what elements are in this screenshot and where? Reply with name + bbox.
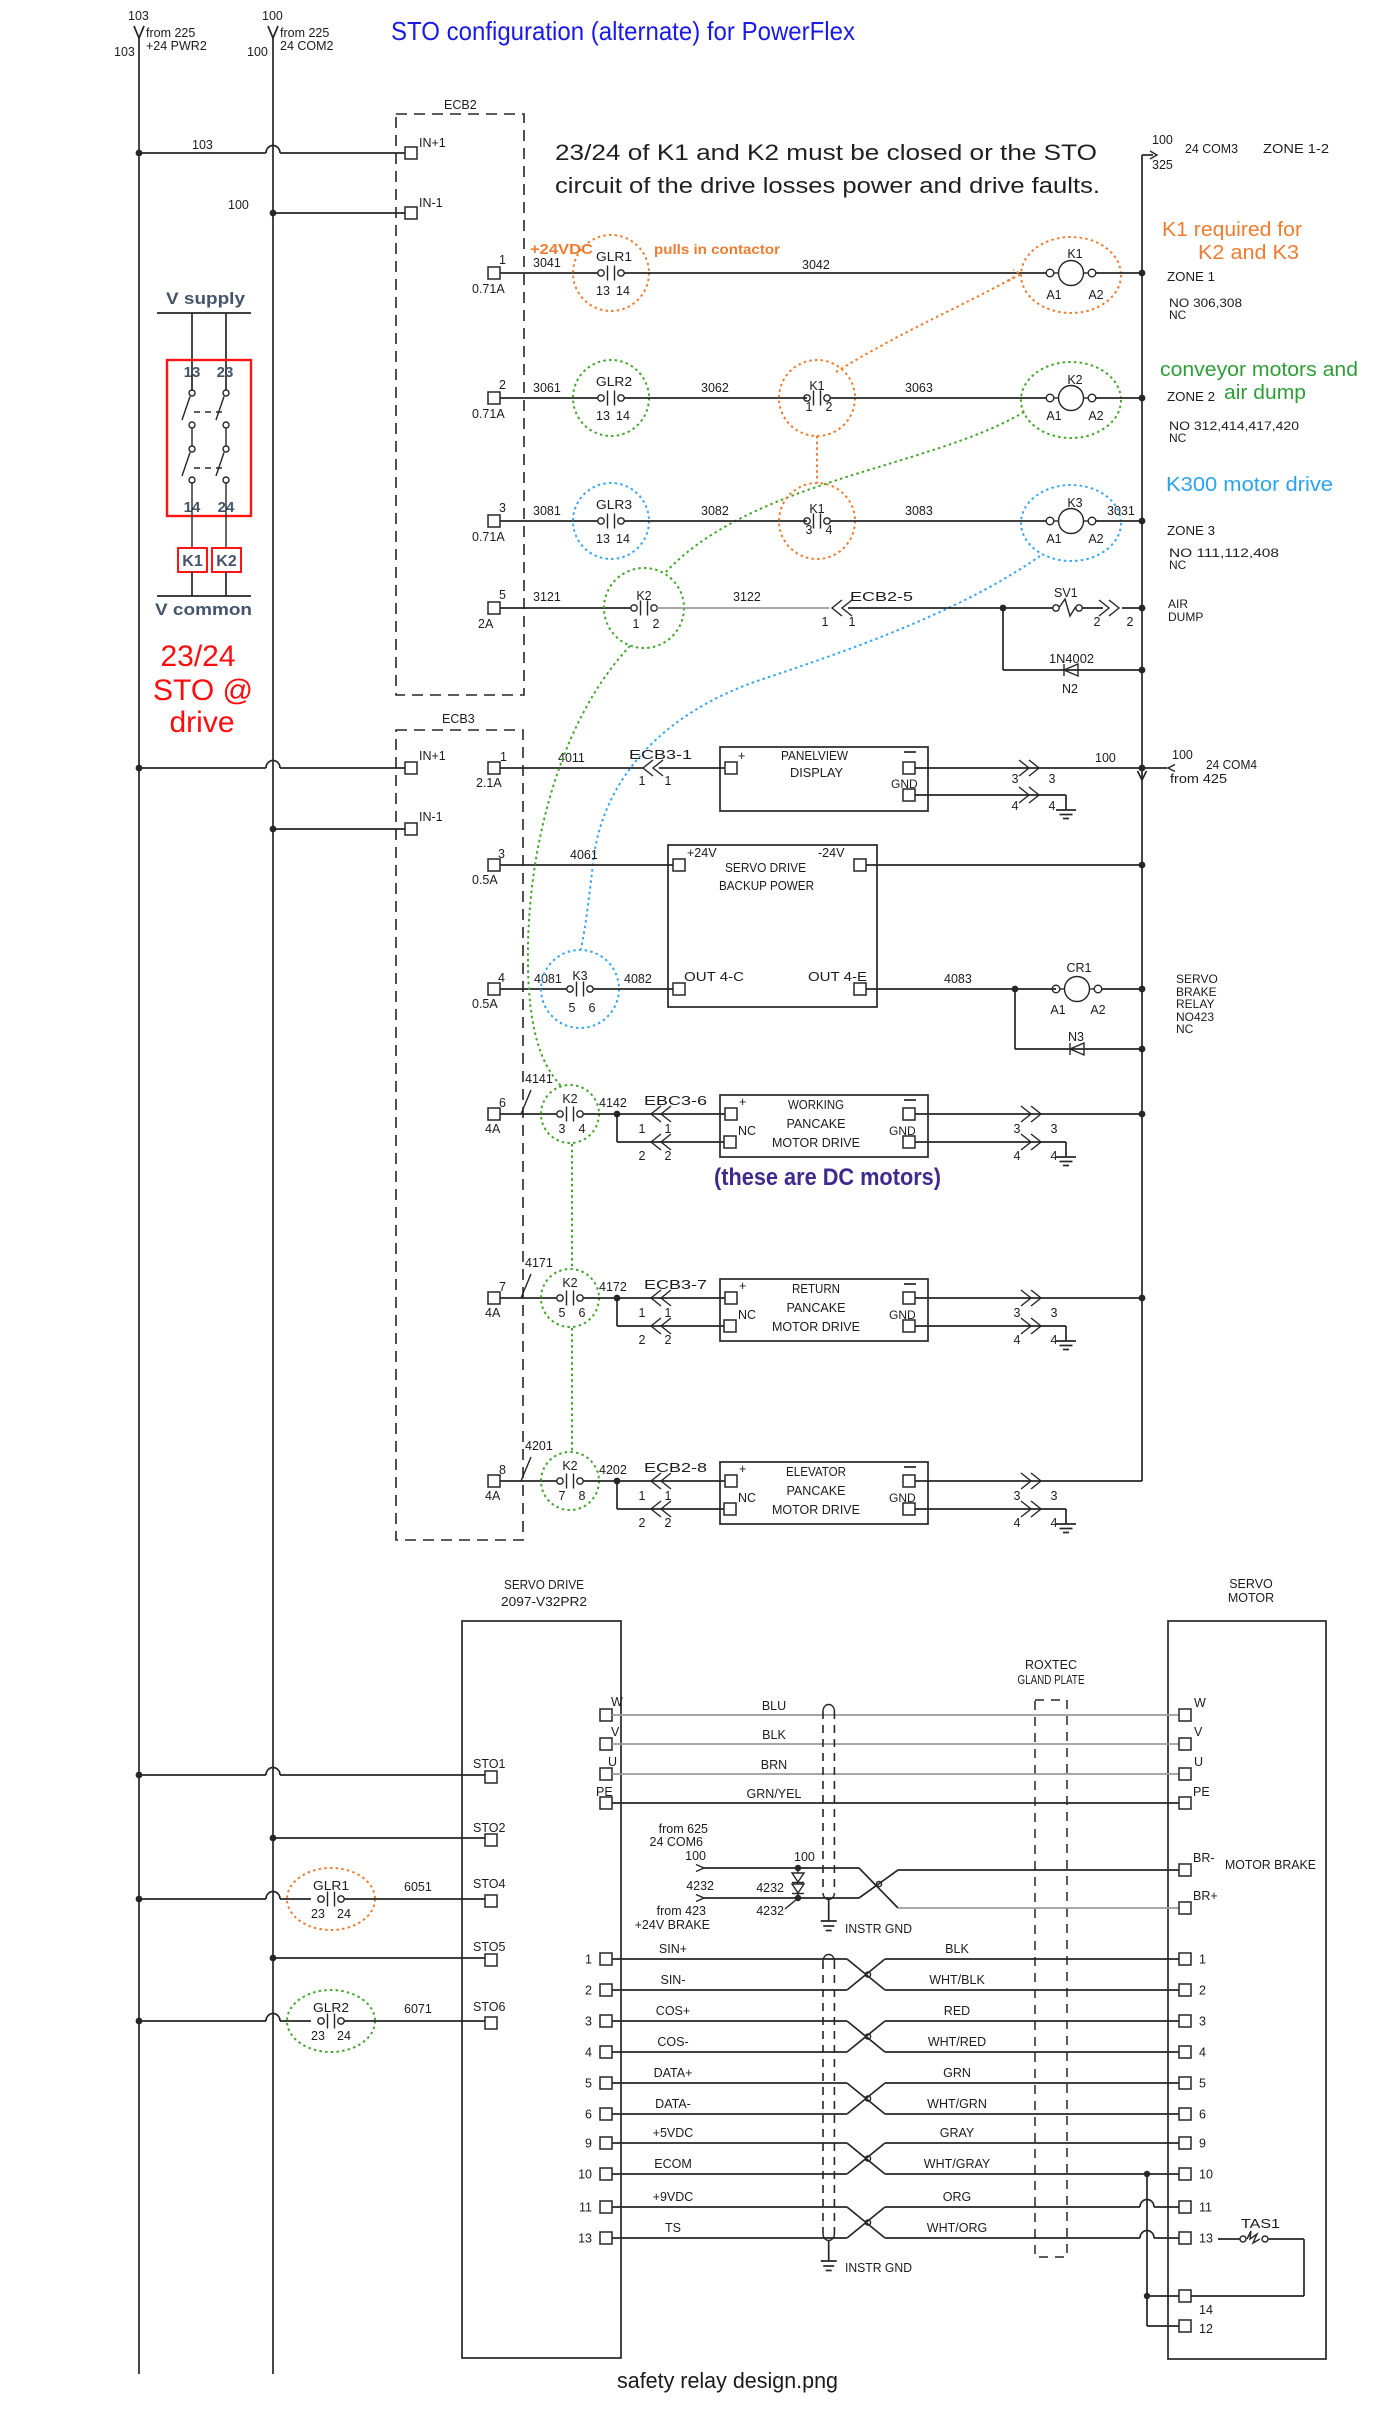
- relay contact GLR1 13-14: [573, 235, 649, 311]
- V supply bus: [157, 289, 251, 390]
- svg-text:-24V: -24V: [818, 846, 845, 860]
- wire 3122 (gray): [657, 590, 829, 608]
- svg-text:3082: 3082: [701, 504, 729, 518]
- svg-text:GLR2: GLR2: [313, 2001, 349, 2015]
- SERVO MOTOR box: [1168, 1577, 1326, 2359]
- junction node: [1000, 605, 1007, 612]
- rung 7: ECB3 output 4 terminal: [472, 971, 505, 1011]
- svg-text:4232: 4232: [686, 1879, 714, 1893]
- svg-text:SERVO DRIVE: SERVO DRIVE: [504, 1578, 584, 1592]
- svg-text:9: 9: [1199, 2137, 1206, 2151]
- svg-text:4: 4: [1014, 1516, 1021, 1530]
- svg-text:BLK: BLK: [762, 1728, 786, 1742]
- svg-text:BLU: BLU: [762, 1699, 786, 1713]
- brake wire 4232: [696, 1895, 859, 1902]
- cable marker EBC3-6: [639, 1094, 708, 1136]
- mechanical link dashes: [194, 411, 224, 413]
- svg-text:2: 2: [665, 1149, 672, 1163]
- rung 9: ECB3 output 7 terminal: [485, 1280, 506, 1320]
- svg-text:1: 1: [806, 400, 813, 414]
- svg-text:GRN: GRN: [943, 2066, 971, 2080]
- svg-text:2: 2: [585, 1984, 592, 1998]
- wire 4172 to junction: [583, 1280, 725, 1301]
- svg-text:from 425: from 425: [1170, 772, 1227, 786]
- zone 3 annotations: [1166, 474, 1333, 572]
- svg-text:NC: NC: [1176, 1022, 1194, 1036]
- svg-text:DATA+: DATA+: [654, 2066, 693, 2080]
- encoder pin 10 (ECOM): [578, 2157, 1213, 2182]
- svg-text:100: 100: [685, 1849, 706, 1863]
- svg-text:3: 3: [585, 2015, 592, 2029]
- svg-text:PANCAKE: PANCAKE: [787, 1484, 846, 1498]
- wire to BR-: [898, 1851, 1215, 1876]
- svg-text:IN+1: IN+1: [419, 749, 446, 763]
- wire 103 to IN+1: [136, 138, 405, 156]
- svg-text:6051: 6051: [404, 1880, 432, 1894]
- svg-text:STO6: STO6: [473, 2000, 505, 2014]
- svg-text:PE: PE: [1193, 1785, 1210, 1799]
- thermostat TAS1: [1191, 2217, 1304, 2296]
- NC branch wire: [617, 1481, 724, 1530]
- return GND wire to ground: [915, 1318, 1076, 1350]
- contact chain 13-14: [182, 390, 195, 548]
- AIR DUMP label: [1168, 597, 1203, 624]
- svg-text:SERVO: SERVO: [1176, 972, 1218, 986]
- svg-text:STO1: STO1: [473, 1757, 505, 1771]
- svg-text:circuit of the drive losses po: circuit of the drive losses power and dr…: [555, 173, 1100, 198]
- svg-text:from 625: from 625: [659, 1822, 708, 1836]
- svg-text:1N4002: 1N4002: [1049, 652, 1094, 666]
- svg-text:K1: K1: [1067, 247, 1082, 261]
- svg-text:NC: NC: [1169, 558, 1187, 572]
- svg-text:24 COM2: 24 COM2: [280, 39, 334, 53]
- svg-text:3: 3: [499, 501, 506, 515]
- contactor coil K3: [1021, 485, 1121, 561]
- svg-text:3: 3: [559, 1122, 566, 1136]
- svg-text:conveyor motors and: conveyor motors and: [1160, 359, 1358, 381]
- svg-text:3083: 3083: [905, 504, 933, 518]
- servo brake relay labels: [1176, 972, 1218, 1036]
- green link K2 3-4 to K2 5-6: [571, 1144, 573, 1268]
- svg-text:0.71A: 0.71A: [472, 282, 505, 296]
- thermal switch common link: [1144, 2174, 1179, 2326]
- svg-text:2: 2: [639, 1149, 646, 1163]
- svg-text:325: 325: [1152, 158, 1173, 172]
- svg-text:24: 24: [337, 1907, 351, 1921]
- green link K2 1-2 to K2 3-4: [528, 646, 630, 1086]
- wire rail to ECB3 IN+1: [136, 761, 405, 772]
- WORKING PANCAKE MOTOR DRIVE box: [720, 1095, 928, 1157]
- svg-text:2: 2: [653, 617, 660, 631]
- svg-text:STO2: STO2: [473, 1821, 505, 1835]
- svg-text:6: 6: [499, 1096, 506, 1110]
- svg-text:24: 24: [337, 2029, 351, 2043]
- ECB2 terminal IN-1: [405, 196, 443, 219]
- twisted pair crossover: [847, 1959, 885, 1990]
- svg-text:STO configuration (alternate): STO configuration (alternate) for PowerF…: [391, 16, 855, 46]
- svg-text:A2: A2: [1088, 532, 1103, 546]
- svg-text:NC: NC: [1169, 308, 1187, 322]
- svg-text:4: 4: [1014, 1149, 1021, 1163]
- brake source labels: [635, 1822, 714, 1932]
- motor U terminal: [1179, 1755, 1203, 1780]
- zone 2 annotations: [1160, 359, 1358, 445]
- wire 4142 to junction: [583, 1096, 725, 1117]
- svg-text:ORG: ORG: [943, 2190, 971, 2204]
- wire 3083: [830, 504, 1046, 521]
- svg-text:4: 4: [1051, 1149, 1058, 1163]
- svg-text:14: 14: [616, 532, 630, 546]
- svg-text:INSTR GND: INSTR GND: [845, 2261, 912, 2275]
- orange link K1 1-2 to K1 3-4: [816, 436, 818, 483]
- svg-text:3031: 3031: [1107, 504, 1135, 518]
- svg-text:3: 3: [1014, 1489, 1021, 1503]
- svg-text:BR+: BR+: [1193, 1889, 1218, 1903]
- svg-text:3: 3: [1199, 2015, 1206, 2029]
- svg-text:GLAND PLATE: GLAND PLATE: [1018, 1673, 1085, 1687]
- svg-text:8: 8: [499, 1463, 506, 1477]
- svg-text:NC: NC: [1169, 431, 1187, 445]
- svg-text:air dump: air dump: [1224, 382, 1306, 404]
- svg-text:100: 100: [1095, 751, 1116, 765]
- svg-text:3061: 3061: [533, 381, 561, 395]
- NC branch wire: [617, 1298, 724, 1347]
- wire BLK: [612, 1728, 1179, 1744]
- svg-text:103: 103: [192, 138, 213, 152]
- svg-text:13: 13: [596, 532, 610, 546]
- off page stub 24 COM4: [1142, 748, 1257, 786]
- svg-text:COS+: COS+: [656, 2004, 690, 2018]
- svg-text:3063: 3063: [905, 381, 933, 395]
- svg-text:WHT/GRN: WHT/GRN: [927, 2097, 987, 2111]
- svg-text:K1 required for: K1 required for: [1162, 219, 1302, 241]
- svg-text:safety relay design.png: safety relay design.png: [617, 2368, 838, 2393]
- svg-text:10: 10: [1199, 2168, 1213, 2182]
- svg-text:4202: 4202: [599, 1463, 627, 1477]
- svg-text:from 225: from 225: [280, 26, 329, 40]
- svg-text:ECB2-8: ECB2-8: [644, 1461, 707, 1475]
- svg-text:5: 5: [499, 588, 506, 602]
- svg-text:14: 14: [616, 409, 630, 423]
- wire 3062: [624, 381, 807, 398]
- svg-text:TS: TS: [665, 2221, 681, 2235]
- rung 6: ECB3 output 3 terminal: [472, 847, 505, 887]
- aux contact K2 1-2: [604, 568, 684, 648]
- svg-text:PE: PE: [596, 1785, 613, 1799]
- drive phase W terminal: [600, 1695, 623, 1721]
- 24V common right rail: [1138, 133, 1330, 1481]
- svg-text:K3: K3: [1067, 496, 1082, 510]
- cable marker ECB3-1: [629, 748, 725, 788]
- svg-text:4081: 4081: [534, 972, 562, 986]
- cable marker ECB3-7: [639, 1278, 708, 1320]
- svg-text:NC: NC: [738, 1124, 756, 1138]
- svg-text:K300 motor drive: K300 motor drive: [1166, 474, 1333, 496]
- svg-text:K2: K2: [216, 553, 237, 570]
- motor pin 14: [1179, 2290, 1213, 2317]
- wire 4202 to junction: [583, 1463, 725, 1484]
- STO2 wire: [270, 1821, 506, 1846]
- svg-text:SERVO DRIVE: SERVO DRIVE: [725, 861, 806, 875]
- flyback diode N3 branch: [1015, 989, 1145, 1055]
- svg-text:5: 5: [1199, 2077, 1206, 2091]
- svg-text:4232: 4232: [756, 1904, 784, 1918]
- svg-text:2: 2: [639, 1333, 646, 1347]
- svg-text:6: 6: [585, 2108, 592, 2122]
- svg-text:4201: 4201: [525, 1439, 553, 1453]
- svg-text:GRN/YEL: GRN/YEL: [747, 1787, 802, 1801]
- svg-text:24 COM6: 24 COM6: [650, 1835, 704, 1849]
- svg-text:24 COM3: 24 COM3: [1185, 142, 1238, 156]
- svg-text:RETURN: RETURN: [792, 1282, 840, 1296]
- brake pair twist: [859, 1868, 898, 1908]
- svg-text:ECOM: ECOM: [654, 2157, 692, 2171]
- svg-text:3: 3: [1049, 772, 1056, 786]
- rung 10: ECB3 output 8 terminal: [485, 1463, 506, 1503]
- svg-text:PANCAKE: PANCAKE: [787, 1301, 846, 1315]
- ELEVATOR PANCAKE MOTOR DRIVE box: [720, 1462, 928, 1524]
- svg-text:1: 1: [585, 1953, 592, 1967]
- svg-text:1: 1: [822, 615, 829, 629]
- svg-text:4: 4: [1051, 1333, 1058, 1347]
- svg-text:IN-1: IN-1: [419, 196, 443, 210]
- PANELVIEW DISPLAY box: [720, 747, 928, 811]
- svg-text:GLR1: GLR1: [596, 250, 632, 264]
- rung 5: ECB3 output 1 terminal: [476, 750, 507, 790]
- motor pin 12: [1179, 2320, 1213, 2336]
- svg-text:2: 2: [826, 400, 833, 414]
- svg-text:3: 3: [1014, 1122, 1021, 1136]
- wire -24V to rail: [866, 862, 1145, 869]
- svg-text:+5VDC: +5VDC: [653, 2126, 694, 2140]
- ECB3 module box: [396, 712, 523, 1540]
- svg-text:4082: 4082: [624, 972, 652, 986]
- working GND wire to ground: [915, 1134, 1076, 1166]
- svg-text:PANELVIEW: PANELVIEW: [781, 749, 848, 763]
- svg-text:2: 2: [1199, 1984, 1206, 1998]
- power rail 100 (second bus): [247, 9, 334, 2374]
- ECB2 module box: [396, 98, 524, 695]
- svg-text:MOTOR: MOTOR: [1228, 1591, 1274, 1605]
- svg-text:ELEVATOR: ELEVATOR: [786, 1465, 846, 1479]
- relay K2 label box: [212, 548, 241, 572]
- encoder pin 5 (DATA+): [585, 2066, 1206, 2091]
- svg-text:4142: 4142: [599, 1096, 627, 1110]
- twisted pair crossover: [847, 2207, 885, 2238]
- svg-text:4: 4: [1051, 1516, 1058, 1530]
- green link K2 5-6 to K2 7-8: [571, 1328, 573, 1451]
- svg-text:COS-: COS-: [657, 2035, 688, 2049]
- relay contact GLR2 13-14: [573, 360, 649, 436]
- svg-text:12: 12: [1199, 2322, 1213, 2336]
- rung 2: ECB2 output 2 terminal: [472, 378, 506, 421]
- svg-text:BRN: BRN: [761, 1758, 787, 1772]
- svg-text:13: 13: [596, 284, 610, 298]
- svg-text:NC: NC: [738, 1491, 756, 1505]
- svg-text:AIR: AIR: [1168, 597, 1188, 611]
- svg-text:SIN+: SIN+: [659, 1942, 687, 1956]
- wire 4171 with leader: [500, 1256, 557, 1298]
- svg-text:1: 1: [639, 1489, 646, 1503]
- svg-text:3081: 3081: [533, 504, 561, 518]
- svg-text:V: V: [1194, 1725, 1203, 1739]
- svg-text:OUT 4-E: OUT 4-E: [808, 970, 867, 984]
- wire 3041: [500, 256, 598, 273]
- svg-text:BLK: BLK: [945, 1942, 969, 1956]
- twisted pair crossover: [847, 2143, 885, 2174]
- svg-text:A2: A2: [1090, 1003, 1105, 1017]
- svg-text:+: +: [739, 1095, 746, 1109]
- svg-text:A1: A1: [1046, 409, 1061, 423]
- svg-text:ZONE 1: ZONE 1: [1167, 270, 1215, 284]
- svg-text:OUT 4-C: OUT 4-C: [684, 970, 744, 984]
- svg-text:3: 3: [1051, 1306, 1058, 1320]
- svg-text:11: 11: [1199, 2201, 1212, 2215]
- svg-text:ZONE 3: ZONE 3: [1167, 524, 1215, 538]
- svg-text:2: 2: [499, 378, 506, 392]
- svg-text:4083: 4083: [944, 972, 972, 986]
- svg-text:14: 14: [616, 284, 630, 298]
- NC branch wire: [617, 1114, 724, 1163]
- svg-text:1: 1: [849, 615, 856, 629]
- svg-text:3122: 3122: [733, 590, 761, 604]
- svg-text:3062: 3062: [701, 381, 729, 395]
- relay contact GLR1 23-24: [136, 1868, 506, 1930]
- svg-text:STO @: STO @: [153, 674, 253, 707]
- wire 3042: [624, 258, 1046, 273]
- svg-text:WHT/ORG: WHT/ORG: [927, 2221, 987, 2235]
- aux contact K2 5-6: [541, 1269, 599, 1327]
- svg-text:23: 23: [311, 1907, 325, 1921]
- svg-text:11: 11: [579, 2201, 592, 2215]
- wire 4201 with leader: [500, 1439, 557, 1481]
- encoder pin 4 (COS-): [585, 2035, 1206, 2060]
- encoder pin 11 (+9VDC): [579, 2190, 1212, 2215]
- aux contact K3 5-6: [541, 950, 619, 1028]
- wire 3031 to rail: [1096, 504, 1145, 524]
- svg-text:3: 3: [1012, 772, 1019, 786]
- svg-text:NO 312,414,417,420: NO 312,414,417,420: [1169, 419, 1299, 433]
- return output wire to rail: [915, 1290, 1145, 1320]
- svg-text:23/24: 23/24: [160, 640, 235, 673]
- svg-text:K2: K2: [562, 1276, 577, 1290]
- svg-text:4: 4: [585, 2046, 592, 2060]
- power cable shield: [821, 1705, 912, 1936]
- svg-text:K2: K2: [1067, 373, 1082, 387]
- svg-text:NC: NC: [738, 1308, 756, 1322]
- brake wire 100: [696, 1850, 859, 1872]
- wire BLU: [612, 1699, 1179, 1715]
- svg-text:MOTOR BRAKE: MOTOR BRAKE: [1225, 1858, 1316, 1872]
- svg-text:GRAY: GRAY: [940, 2126, 975, 2140]
- svg-text:CR1: CR1: [1066, 961, 1091, 975]
- svg-text:4172: 4172: [599, 1280, 627, 1294]
- svg-text:1: 1: [1199, 1953, 1206, 1967]
- wire to BR+: [898, 1889, 1218, 1914]
- svg-text:ZONE 2: ZONE 2: [1167, 390, 1215, 404]
- suppressor diode pair: [756, 1868, 804, 1918]
- wire 3061: [500, 381, 598, 398]
- svg-text:K1: K1: [182, 553, 203, 570]
- svg-text:3121: 3121: [533, 590, 561, 604]
- wire 3081: [500, 504, 598, 521]
- ROXTEC gland plate: [1018, 1658, 1085, 2257]
- svg-text:2: 2: [1094, 615, 1101, 629]
- svg-text:103: 103: [128, 9, 149, 23]
- svg-text:1: 1: [499, 253, 506, 267]
- svg-text:2: 2: [665, 1333, 672, 1347]
- elevator GND wire to ground: [915, 1501, 1076, 1533]
- svg-text:N3: N3: [1068, 1030, 1084, 1044]
- svg-text:1: 1: [639, 1306, 646, 1320]
- svg-text:ROXTEC: ROXTEC: [1025, 1658, 1077, 1672]
- rung 3: ECB2 output 3 terminal: [472, 501, 506, 544]
- contactor coil K2: [1021, 362, 1121, 438]
- RETURN PANCAKE MOTOR DRIVE box: [720, 1279, 928, 1341]
- svg-text:ECB3-1: ECB3-1: [629, 748, 692, 762]
- aux contact K2 3-4: [541, 1085, 599, 1143]
- svg-text:23/24 of K1 and K2 must be clo: 23/24 of K1 and K2 must be closed or the…: [555, 140, 1097, 165]
- svg-text:+24VDC: +24VDC: [530, 241, 593, 258]
- svg-text:STO4: STO4: [473, 1877, 505, 1891]
- wire 4141 with leader: [500, 1072, 557, 1114]
- svg-text:MOTOR DRIVE: MOTOR DRIVE: [772, 1136, 860, 1150]
- wire 100 to IN-1: [228, 198, 405, 216]
- svg-text:TAS1: TAS1: [1241, 2217, 1280, 2231]
- svg-text:GLR3: GLR3: [596, 498, 632, 512]
- wire 4081: [500, 972, 567, 989]
- wire 3063: [830, 381, 1046, 398]
- rung 8: ECB3 output 6 terminal: [485, 1096, 506, 1136]
- svg-text:4: 4: [826, 523, 833, 537]
- wire GRN/YEL: [612, 1787, 1179, 1803]
- relay contact GLR2 23-24: [136, 1990, 506, 2052]
- ECB3 terminal IN-1: [405, 810, 443, 835]
- svg-text:4: 4: [1014, 1333, 1021, 1347]
- svg-text:ZONE 1-2: ZONE 1-2: [1263, 142, 1329, 156]
- contact chain 23-24: [216, 390, 229, 548]
- encoder pin 13 (TS): [578, 2221, 1213, 2246]
- svg-text:+24V BRAKE: +24V BRAKE: [635, 1918, 710, 1932]
- svg-text:5: 5: [559, 1306, 566, 1320]
- wire BRN: [612, 1758, 1179, 1774]
- svg-text:A1: A1: [1046, 288, 1061, 302]
- svg-text:100: 100: [228, 198, 249, 212]
- svg-text:4A: 4A: [485, 1489, 501, 1503]
- svg-text:K1: K1: [809, 379, 824, 393]
- svg-text:STO5: STO5: [473, 1940, 505, 1954]
- svg-text:100: 100: [1152, 133, 1173, 147]
- ECB3 terminal IN+1: [405, 749, 446, 774]
- wire 4061: [500, 848, 673, 865]
- wire 4082: [593, 972, 673, 989]
- svg-text:4171: 4171: [525, 1256, 553, 1270]
- svg-text:ECB2: ECB2: [444, 98, 477, 112]
- svg-text:4232: 4232: [756, 1881, 784, 1895]
- svg-text:WHT/RED: WHT/RED: [928, 2035, 986, 2049]
- svg-text:+24V: +24V: [687, 846, 717, 860]
- svg-text:U: U: [608, 1755, 617, 1769]
- svg-text:4061: 4061: [570, 848, 598, 862]
- svg-text:100: 100: [1172, 748, 1193, 762]
- svg-text:6: 6: [589, 1001, 596, 1015]
- aux contact K1 1-2: [779, 360, 855, 436]
- svg-text:+9VDC: +9VDC: [653, 2190, 694, 2204]
- svg-text:A1: A1: [1050, 1003, 1065, 1017]
- svg-text:0.5A: 0.5A: [472, 873, 498, 887]
- svg-text:SIN-: SIN-: [661, 1973, 686, 1987]
- svg-text:2: 2: [639, 1516, 646, 1530]
